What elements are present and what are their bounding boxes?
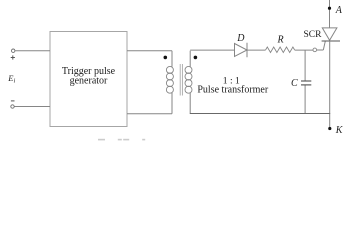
svg-text:C: C (291, 78, 298, 89)
svg-text:K: K (335, 125, 344, 136)
svg-text:R: R (277, 34, 284, 45)
svg-text:SCR: SCR (304, 30, 323, 40)
svg-text:A: A (335, 5, 343, 16)
svg-text:Pulse transformer: Pulse transformer (197, 84, 268, 95)
svg-text:D: D (236, 33, 245, 44)
svg-text:Ei: Ei (7, 73, 15, 85)
svg-text:generator: generator (70, 76, 108, 87)
